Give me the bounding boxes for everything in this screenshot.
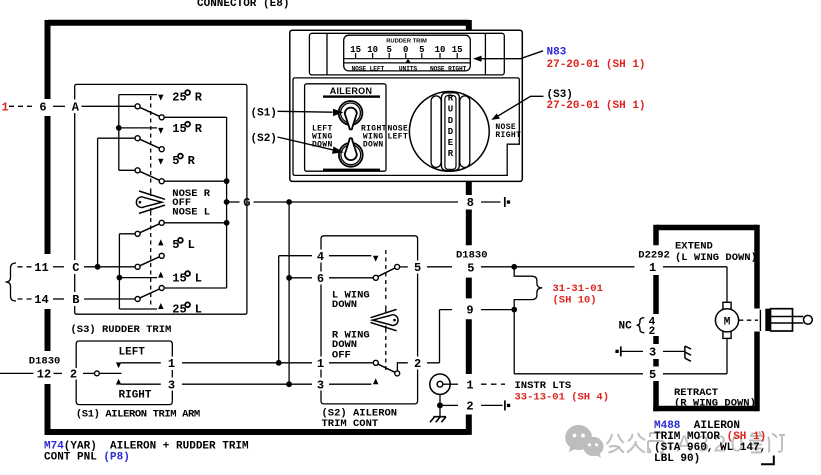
svg-text:B: B <box>72 293 79 307</box>
svg-text:INSTR LTS: INSTR LTS <box>515 380 572 392</box>
svg-text:D2292: D2292 <box>638 249 670 261</box>
arrow S3 to rudder knob <box>496 96 544 117</box>
wire 12 to S1 pin 2 <box>54 372 63 374</box>
rudder trim indicator window <box>344 35 471 71</box>
S3 dashed mechanical linkage <box>150 96 152 307</box>
wire pin 6 input dashed <box>9 105 34 107</box>
wire RIGHT contact to pin 3 <box>121 383 161 385</box>
rudder trim indicator bezel <box>309 33 504 75</box>
junction row3 to S2 pin6 riser <box>286 381 292 387</box>
wire S2 pin5 to D1830 pin 5 <box>427 266 452 268</box>
label 15 deg L <box>172 271 202 285</box>
label 31-31-01 (SH 10) <box>553 283 603 306</box>
svg-text:NOSE LEFT: NOSE LEFT <box>351 66 384 73</box>
arrow S1 to upper toggle <box>278 110 333 113</box>
svg-text:12: 12 <box>37 368 51 382</box>
svg-text:LEFT: LEFT <box>119 347 146 359</box>
labels RIGHT WING DOWN <box>361 124 387 149</box>
shield termination at pin 3 <box>615 350 618 353</box>
labels NOSE LEFT / UNITS / NOSE RIGHT <box>351 66 466 73</box>
watermark wechat icon <box>565 425 603 458</box>
S3 arm 1 (wiper contact) <box>135 104 140 109</box>
wire pin 5 to motor <box>663 338 727 373</box>
wire arm4 to right bus <box>164 222 226 224</box>
wire LEFT contact to pin 1 <box>121 362 161 364</box>
svg-text:(R WING DOWN): (R WING DOWN) <box>674 397 756 409</box>
svg-text:LBL 90): LBL 90) <box>654 453 700 465</box>
svg-text:(S1) AILERON TRIM ARM: (S1) AILERON TRIM ARM <box>76 409 200 421</box>
svg-text:11: 11 <box>34 261 48 275</box>
S1 LEFT contact triangle <box>116 362 121 368</box>
svg-text:G: G <box>243 196 250 210</box>
S1 common contact <box>83 372 94 374</box>
svg-text:D: D <box>448 127 454 137</box>
svg-text:AILERON: AILERON <box>330 86 373 96</box>
svg-text:CONNECTOR (E8): CONNECTOR (E8) <box>197 0 289 10</box>
svg-text:5: 5 <box>414 261 421 275</box>
label M74 caption line2 <box>44 452 130 464</box>
S1 RIGHT contact triangle <box>116 379 121 385</box>
arrow N83 to indicator <box>481 51 543 59</box>
toggle switch S2 (lower) <box>339 143 363 167</box>
motor M488 <box>723 302 731 309</box>
wire junction to pin 2 <box>443 404 458 406</box>
svg-text:(YAR): (YAR) <box>64 440 97 452</box>
wire A to S3 arm 1 <box>82 105 136 107</box>
svg-text:R: R <box>448 94 454 104</box>
switch S3 box <box>75 84 247 314</box>
wire riser G bus to S2 pin 6 and pin 3 row <box>289 202 312 384</box>
svg-text:M74: M74 <box>44 440 64 452</box>
svg-text:3: 3 <box>317 378 324 392</box>
svg-text:U: U <box>448 105 453 115</box>
S3 left feed bus (25R/15R) <box>119 95 157 171</box>
svg-text:5: 5 <box>467 262 474 276</box>
wire into pin 12 <box>0 372 34 374</box>
svg-text:AILERON + RUDDER TRIM: AILERON + RUDDER TRIM <box>110 440 249 452</box>
wire pin 14 input dashed <box>18 298 35 300</box>
svg-text:1: 1 <box>317 357 324 371</box>
label M74 caption line1 <box>44 440 249 452</box>
wire pin 8 to shield termination <box>481 201 501 203</box>
S3 arm 3 <box>135 168 140 173</box>
lamp instrument light <box>430 374 450 394</box>
junction pin5 row <box>511 264 517 270</box>
shield termination symbol pin 8 <box>504 197 506 207</box>
svg-text:L: L <box>195 271 202 285</box>
junction riser at pin6 row <box>286 275 292 281</box>
svg-text:3: 3 <box>649 346 656 360</box>
label RUDDER vertical <box>448 94 454 160</box>
svg-text:TRIM CONT: TRIM CONT <box>322 418 379 430</box>
aileron top bar <box>323 95 380 97</box>
svg-text:33-13-01 (SH 4): 33-13-01 (SH 4) <box>515 391 610 403</box>
rudder knob center bar <box>441 93 459 171</box>
label 5 deg L <box>172 238 195 252</box>
svg-text:C: C <box>72 261 79 275</box>
motor M488 thick border outline <box>653 225 757 411</box>
svg-text:R: R <box>188 154 196 168</box>
rudder knob left grip <box>431 96 441 167</box>
wire riser to S2 pin 4 <box>279 256 312 363</box>
svg-text:D1830: D1830 <box>456 250 488 262</box>
wire S1 pin1 to S2 pin1 <box>182 362 312 364</box>
S3 contact 5R triangle <box>158 159 163 165</box>
scale pointer <box>405 59 411 63</box>
svg-text:NOSE RIGHT: NOSE RIGHT <box>430 66 467 73</box>
scale tick marks <box>356 53 458 58</box>
label 25 deg L <box>172 303 202 317</box>
S3 contact 5L triangle <box>158 239 163 245</box>
mechanical link dashed <box>739 319 758 321</box>
svg-text:27-20-01 (SH 1): 27-20-01 (SH 1) <box>547 100 646 112</box>
svg-text:LEFT: LEFT <box>388 132 409 141</box>
aileron sub-panel box <box>305 84 386 171</box>
svg-text:(P8): (P8) <box>103 452 129 464</box>
labels R WING DOWN OFF <box>332 329 370 361</box>
wire 14 to B <box>53 298 64 300</box>
wire 11 to C <box>53 266 64 268</box>
label 25 deg R <box>172 90 203 104</box>
shield termination symbol lamp pin 2 <box>504 400 506 410</box>
svg-text:6: 6 <box>317 272 324 286</box>
labels L WING DOWN <box>332 289 370 311</box>
svg-text:L: L <box>188 238 195 252</box>
wire S2 pin2 riser to pin 9 <box>427 310 452 363</box>
wire C feed up to arm2 <box>98 138 136 267</box>
scale numbers 15 10 5 0 5 10 15 <box>350 45 462 55</box>
svg-text:(L WING DOWN): (L WING DOWN) <box>675 252 757 264</box>
NC brace <box>637 318 645 333</box>
svg-text:RIGHT: RIGHT <box>119 390 152 402</box>
wire bus to G <box>227 201 240 203</box>
svg-text:2: 2 <box>70 368 77 382</box>
svg-text:27-20-01 (SH 1): 27-20-01 (SH 1) <box>547 59 646 71</box>
svg-text:1: 1 <box>2 101 9 115</box>
wire arm3 to right bus <box>164 180 226 182</box>
S2 pin3 contact triangle <box>329 383 371 385</box>
labels NOSE LEFT (panel) <box>388 124 409 141</box>
svg-text:14: 14 <box>34 293 48 307</box>
wire G to pin 8 <box>254 201 459 203</box>
S3 lower feed bus (15L/25L) <box>119 234 157 309</box>
S2 rotary wiper symbol <box>371 309 398 330</box>
svg-text:4: 4 <box>317 250 324 264</box>
wire C to arm5 <box>84 266 135 268</box>
wire pin 3 to shield drain <box>663 350 685 352</box>
svg-text:NC: NC <box>619 320 633 332</box>
wire arm1 to right bus <box>164 117 226 288</box>
svg-text:2: 2 <box>466 400 473 414</box>
svg-text:DOWN: DOWN <box>332 299 357 311</box>
control panel face plate <box>290 30 523 181</box>
labels NOSE R / OFF / NOSE L <box>172 188 211 219</box>
shield drain symbol <box>685 346 691 361</box>
S3 arm 6 <box>135 297 140 302</box>
wire pin5 to motor connector <box>481 266 635 268</box>
svg-text:8: 8 <box>467 196 474 210</box>
wire S1 pin3 to S2 pin3 <box>182 383 312 385</box>
svg-text:A: A <box>72 101 80 115</box>
wire bundle bracket 31-31-01 <box>514 267 531 310</box>
brace for pins 11/14 <box>6 263 17 301</box>
junction row1 to S2 pin4 riser <box>276 360 282 366</box>
S3 contact 25R triangle <box>158 95 163 101</box>
svg-text:D: D <box>448 116 454 126</box>
svg-text:M: M <box>724 317 731 329</box>
dashed wire to INSTR LTS <box>481 383 505 385</box>
wire shield to pin 3 <box>621 350 643 352</box>
wire lamp to ground junction <box>439 394 441 416</box>
switch S1 box <box>76 341 172 405</box>
toggle switch S1 (upper) <box>339 101 363 125</box>
wire pin 11 input dashed <box>18 266 35 268</box>
svg-text:L: L <box>195 303 202 317</box>
svg-text:E: E <box>448 138 454 148</box>
svg-text:NOSE L: NOSE L <box>172 206 210 218</box>
node G junction <box>224 199 230 205</box>
panel main section with notch <box>293 78 519 175</box>
labels LEFT WING DOWN <box>312 124 333 149</box>
S3 contact 15R triangle <box>158 128 163 134</box>
svg-text:CONT PNL: CONT PNL <box>44 452 97 464</box>
junction riser at G wire <box>286 199 292 205</box>
svg-text:2: 2 <box>414 357 421 371</box>
S3 arm 4 junction <box>224 220 230 226</box>
wire pin9 junction down to motor pin 5 <box>514 310 643 374</box>
svg-text:R: R <box>195 90 203 104</box>
S2 pin4 contact triangle <box>329 255 371 257</box>
actuator <box>759 310 761 331</box>
svg-text:R: R <box>448 149 454 159</box>
svg-text:2: 2 <box>649 326 656 338</box>
rudder knob right grip <box>460 96 470 167</box>
svg-text:RUDDER TRIM: RUDDER TRIM <box>386 39 427 45</box>
svg-text:UNITS: UNITS <box>399 66 418 73</box>
junction lamp ground <box>437 402 443 408</box>
aileron bottom bar <box>323 169 380 171</box>
wire pin9 to junction <box>481 309 514 311</box>
S2 dashed linkage <box>385 250 387 370</box>
S2 lower switch arm <box>329 362 373 364</box>
wire B to arm6 <box>84 298 135 300</box>
svg-text:(S2): (S2) <box>251 133 277 145</box>
S3 contact 15L triangle <box>158 272 163 278</box>
rudder knob <box>409 91 489 171</box>
svg-text:1: 1 <box>649 261 656 275</box>
svg-text:3: 3 <box>168 378 175 392</box>
svg-text:5: 5 <box>649 368 656 382</box>
S3 rotary wiper symbol <box>136 191 165 213</box>
svg-text:DOWN: DOWN <box>363 141 384 150</box>
svg-text:N83: N83 <box>547 47 567 59</box>
watermark text <box>607 433 664 453</box>
S3 arm 5 <box>135 264 140 269</box>
svg-text:R: R <box>195 122 203 136</box>
svg-text:9: 9 <box>466 304 473 318</box>
wire pin 1 to motor <box>663 267 727 303</box>
svg-text:(S1): (S1) <box>251 107 277 119</box>
scale baseline <box>344 59 471 63</box>
S3 contact 25L triangle <box>158 303 163 309</box>
labels NOSE RIGHT (panel) <box>495 123 521 140</box>
S3 arm 4 <box>135 231 140 236</box>
svg-text:D1830: D1830 <box>29 356 61 368</box>
svg-text:(SH 10): (SH 10) <box>553 294 597 306</box>
junction on S3 left bus <box>116 125 122 131</box>
S3 arm 2 <box>135 136 140 141</box>
switch S2 box <box>321 236 418 404</box>
wire 6 to A <box>53 105 65 107</box>
arrow S2 to lower toggle <box>278 137 336 151</box>
wire pin 2 to shield termination <box>481 404 503 406</box>
junction pin9 row <box>511 307 517 313</box>
S2 upper switch arm <box>329 277 373 279</box>
label M488 AILERON (line1) <box>654 420 740 432</box>
panel M74 thick border outline <box>45 20 469 435</box>
frame corner mark <box>761 456 774 465</box>
label TRIM MOTOR (SH 1) (line2) <box>654 431 766 443</box>
label 15 deg R <box>172 122 203 136</box>
chassis ground <box>430 417 446 423</box>
svg-text:1: 1 <box>466 378 473 392</box>
svg-text:(S3) RUDDER TRIM: (S3) RUDDER TRIM <box>71 324 172 336</box>
label 5 deg R <box>172 154 195 168</box>
wire arm6 to right bus <box>164 287 226 289</box>
svg-text:EXTEND: EXTEND <box>675 240 713 252</box>
svg-text:1: 1 <box>168 357 175 371</box>
svg-text:6: 6 <box>39 101 46 115</box>
svg-text:OFF: OFF <box>332 349 351 361</box>
svg-text:RIGHT: RIGHT <box>495 131 521 140</box>
